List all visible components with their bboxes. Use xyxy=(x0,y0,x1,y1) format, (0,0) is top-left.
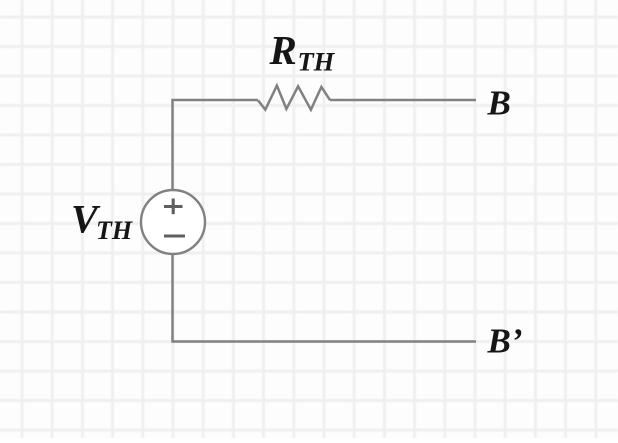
svg-text:TH: TH xyxy=(298,47,336,77)
svg-text:B: B xyxy=(487,83,511,122)
svg-text:R: R xyxy=(269,27,297,73)
svg-text:TH: TH xyxy=(96,216,133,245)
svg-text:B’: B’ xyxy=(487,321,523,360)
